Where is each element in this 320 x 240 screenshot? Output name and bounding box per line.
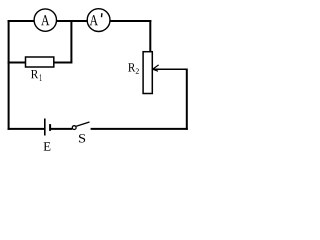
label R1 [31, 70, 42, 81]
bottom wire right segment (switch to right wire) [91, 128, 188, 130]
label R2 [128, 63, 139, 73]
ammeter A [34, 9, 56, 31]
label S [79, 134, 85, 142]
battery E [45, 119, 50, 136]
bottom wire segment (battery to switch) [51, 128, 72, 130]
resistor R1 [26, 57, 54, 67]
switch S [72, 122, 89, 130]
left vertical wire [8, 20, 10, 130]
right vertical wire (wiper to bottom) [186, 69, 188, 130]
node junction of R1 branch on top wire [70, 20, 72, 63]
rheostat R2 wiper arrow [153, 65, 187, 71]
bottom wire left segment (left wire to battery) [8, 128, 45, 130]
label E [44, 142, 51, 150]
ammeter A' [87, 9, 110, 32]
wire top-middle segment (ammeter A to ammeter A') [56, 20, 87, 22]
rheostat R2 body [143, 52, 152, 94]
wire corner down to rheostat R2 top [149, 20, 151, 52]
wire R1 branch left (left wire to R1) [8, 62, 26, 64]
wire R1 branch right (R1 to junction) [54, 62, 73, 64]
wire top-right segment (ammeter A' to corner) [110, 20, 151, 22]
wire top-left segment (node L to ammeter A) [8, 20, 35, 22]
